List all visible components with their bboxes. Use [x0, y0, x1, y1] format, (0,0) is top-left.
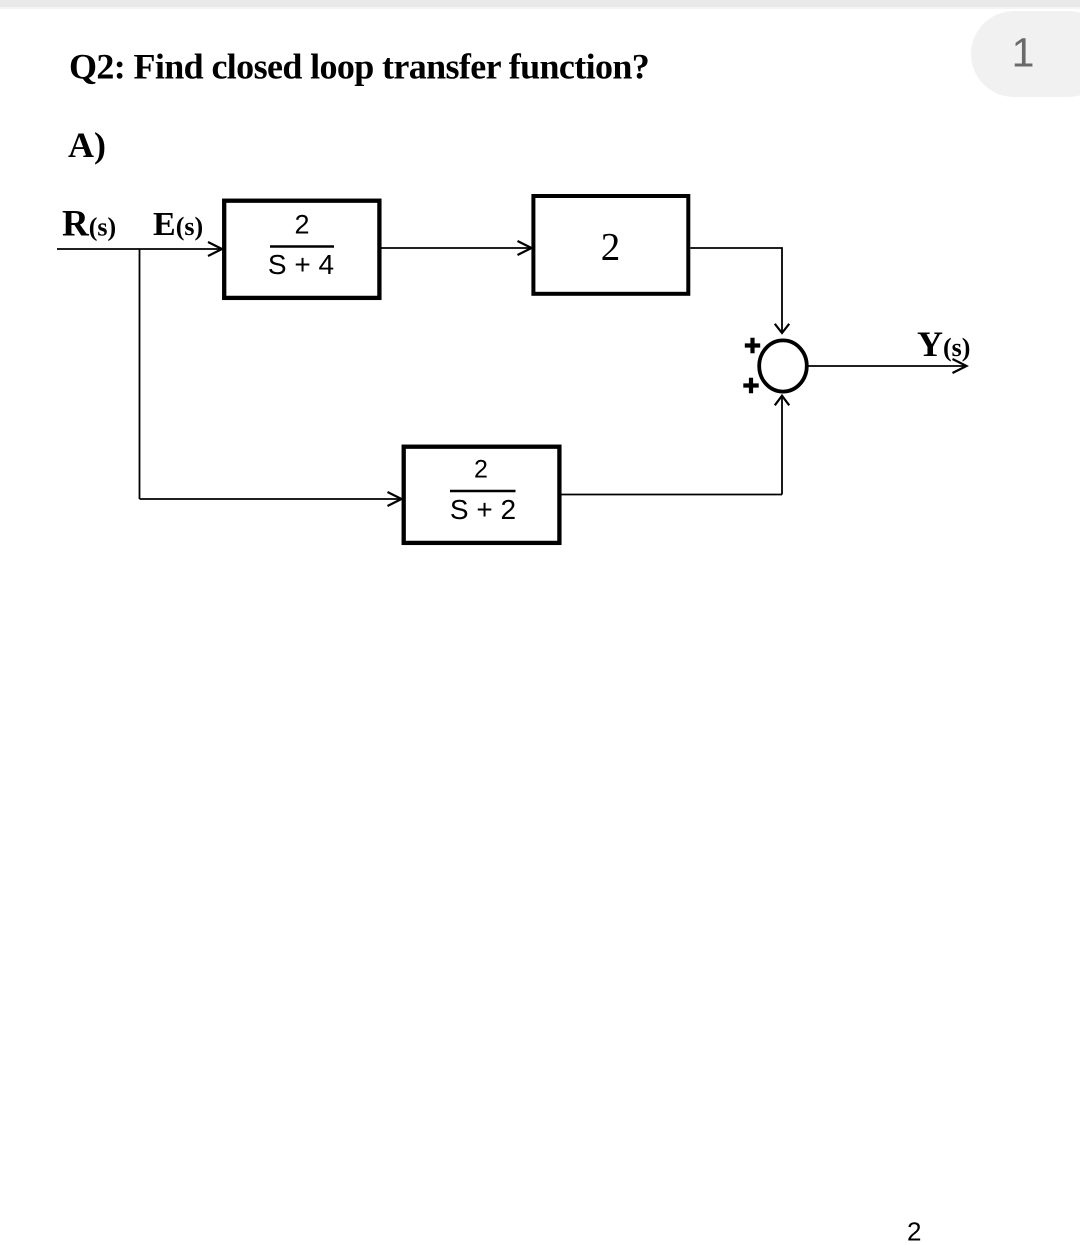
svg-text:2: 2	[294, 210, 309, 240]
svg-text:Q2: Find closed loop transfer: Q2: Find closed loop transfer function?	[69, 47, 649, 87]
svg-text:Y(s): Y(s)	[917, 324, 970, 364]
svg-text:2: 2	[474, 456, 488, 484]
block G1 2/(S+4)	[224, 201, 379, 298]
block H 2/(S+2)	[404, 447, 560, 543]
wire branch to block H	[140, 498, 401, 500]
svg-text:2: 2	[601, 226, 621, 269]
wire R(s) input to block G1	[57, 248, 221, 250]
summing junction	[759, 340, 807, 391]
arrowhead into summer bottom	[775, 396, 789, 406]
wire G2 output right then down to summer	[690, 248, 782, 332]
plus sign lower input	[743, 378, 758, 393]
page badge 1	[971, 11, 1080, 97]
wire H output to summer riser	[562, 494, 783, 496]
svg-text:A): A)	[68, 125, 106, 165]
svg-text:R(s): R(s)	[62, 204, 116, 245]
wire G1 to G2	[382, 247, 531, 249]
arrowhead into G2	[518, 241, 532, 255]
top gray bar	[0, 0, 1080, 7]
wire branch down from E(s) node	[139, 249, 141, 499]
svg-text:S + 4: S + 4	[268, 249, 334, 280]
arrowhead into G1	[208, 242, 222, 256]
svg-text:E(s): E(s)	[153, 206, 203, 243]
svg-text:1: 1	[1012, 30, 1035, 76]
plus sign upper input	[745, 338, 760, 353]
block G2 gain 2	[533, 196, 688, 294]
svg-text:2: 2	[907, 1217, 921, 1245]
wire summer to Y(s) output	[809, 365, 966, 367]
arrowhead into summer top	[775, 324, 789, 333]
arrowhead output	[953, 359, 967, 373]
arrowhead into H	[388, 492, 402, 506]
wire feedforward up into summer bottom	[781, 396, 783, 495]
svg-text:S + 2: S + 2	[450, 494, 516, 525]
